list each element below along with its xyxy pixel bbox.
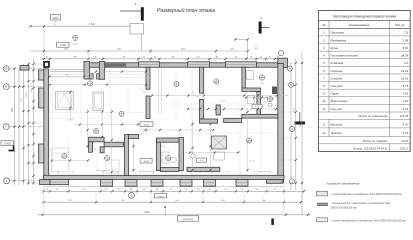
svg-text:- несущие внутр. перегородки и: - несущие внутр. перегородки из газоблок… bbox=[331, 202, 392, 205]
svg-text:90: 90 bbox=[143, 57, 145, 59]
svg-text:140: 140 bbox=[142, 189, 145, 191]
bold mark bottom bbox=[271, 218, 274, 225]
bath wall horizontal y167.5 bbox=[161, 168, 180, 172]
hall stub x100 bbox=[100, 147, 104, 153]
hall wall B y142 bbox=[104, 142, 123, 147]
svg-text:8,18: 8,18 bbox=[403, 131, 409, 135]
table row 4 Гостиная-столовая bbox=[319, 58, 411, 60]
svg-text:Условные обозначения: Условные обозначения bbox=[326, 182, 360, 186]
table subtotal row bbox=[319, 118, 411, 120]
closet wall horizontal y167 bbox=[187, 167, 220, 171]
witness lines top bbox=[88, 52, 90, 62]
left vertical dimension lines bbox=[14, 69, 16, 185]
svg-text:1,20: 1,20 bbox=[200, 160, 204, 162]
svg-text:60: 60 bbox=[46, 189, 48, 191]
svg-text:Кухня: Кухня bbox=[331, 46, 339, 50]
door arc living bbox=[140, 87, 146, 93]
room mark 6 bbox=[119, 111, 124, 116]
svg-text:1240: 1240 bbox=[117, 49, 123, 51]
svg-text:205: 205 bbox=[224, 189, 227, 191]
top wall windows bbox=[139, 62, 160, 67]
axis circle А bbox=[4, 178, 10, 184]
wc interior dim bbox=[244, 97, 276, 99]
interior duct lines x158 bbox=[158, 68, 160, 114]
svg-text:Подоконник см.: Подоконник см. bbox=[141, 171, 155, 173]
svg-text:Наименование: Наименование bbox=[349, 23, 370, 27]
svg-text:101: 101 bbox=[196, 57, 199, 59]
table row 8 Сан.узел bbox=[319, 88, 411, 90]
axis circle above right corner bbox=[278, 50, 283, 55]
svg-text:65: 65 bbox=[46, 57, 48, 59]
svg-text:Размерный план этажа: Размерный план этажа bbox=[157, 7, 215, 14]
svg-text:9,81: 9,81 bbox=[403, 46, 409, 50]
svg-text:В: В bbox=[5, 67, 7, 71]
section marker 1 top right bbox=[259, 22, 262, 34]
interior wall vertical x198 bbox=[200, 67, 204, 93]
right axis circles bbox=[287, 66, 292, 71]
interior wall vertical main x146 bbox=[146, 67, 150, 89]
fixtures living room rect 2 bbox=[93, 92, 103, 110]
interior wall horizontal y119 bbox=[200, 119, 218, 123]
svg-text:-0,050: -0,050 bbox=[143, 161, 150, 163]
tambour wall vertical right bbox=[99, 62, 104, 80]
svg-text:2,83: 2,83 bbox=[402, 99, 409, 103]
bottom dimension line 1 bbox=[44, 190, 305, 192]
svg-text:Спальня: Спальня bbox=[331, 76, 343, 80]
svg-text:120: 120 bbox=[240, 189, 243, 191]
top dimension line row B bbox=[31, 50, 248, 52]
wc block horizontal y114.5 bbox=[242, 114, 278, 118]
svg-text:Вентиляция: Вентиляция bbox=[331, 99, 349, 103]
room mark 4 elevation bbox=[259, 75, 264, 80]
right vertical dimension lines bbox=[290, 63, 292, 190]
svg-text:17,50: 17,50 bbox=[73, 44, 79, 46]
top exterior wall band bbox=[84, 63, 284, 67]
porch edge lines top-left bbox=[50, 69, 84, 71]
svg-text:170: 170 bbox=[169, 189, 172, 191]
table terrace subtotal bbox=[319, 143, 411, 145]
room mark 7 bbox=[104, 155, 109, 160]
svg-text:2400: 2400 bbox=[53, 17, 59, 20]
dining table block bbox=[212, 136, 227, 149]
dining interior dim bbox=[186, 108, 277, 110]
svg-text:6,75: 6,75 bbox=[403, 84, 409, 88]
svg-text:Раздевалка: Раздевалка bbox=[331, 38, 347, 42]
svg-text:h=2,70: h=2,70 bbox=[249, 161, 255, 163]
top-left empty frame box bbox=[130, 24, 144, 35]
elevation mark circle top bbox=[73, 35, 78, 40]
bath wall vertical x179 bbox=[179, 138, 184, 171]
wc block vertical x242 bbox=[242, 67, 245, 88]
bed furniture bottom-left bbox=[52, 148, 69, 172]
fixtures living room rect 1 bbox=[56, 92, 74, 110]
svg-text:125,55: 125,55 bbox=[400, 114, 409, 118]
svg-text:284: 284 bbox=[171, 57, 174, 59]
wc fixtures top right bbox=[247, 71, 254, 80]
svg-text:Кладовая: Кладовая bbox=[331, 61, 344, 65]
witness lines left bbox=[30, 63, 44, 65]
svg-text:288: 288 bbox=[73, 57, 76, 59]
witness lines bottom bbox=[43, 184, 45, 192]
svg-text:-0,450: -0,450 bbox=[4, 142, 11, 145]
top dimension jog bbox=[236, 38, 248, 40]
table row 7 Спальня bbox=[319, 81, 411, 83]
svg-text:2: 2 bbox=[322, 38, 325, 42]
table row 9 Сауна bbox=[319, 96, 411, 98]
door arc kitchen bbox=[193, 91, 199, 97]
bottom wall windows bbox=[50, 180, 69, 185]
svg-text:120: 120 bbox=[155, 189, 158, 191]
svg-text:12: 12 bbox=[322, 123, 326, 127]
svg-text:Итого: 125,55/13,57/14,11: Итого: 125,55/13,57/14,11 bbox=[353, 147, 388, 151]
bath fixtures center bbox=[162, 152, 169, 163]
table row 6 Спальня bbox=[319, 73, 411, 75]
svg-text:120: 120 bbox=[104, 189, 107, 191]
extra interior density lines bbox=[52, 70, 54, 174]
room mark 8 bbox=[246, 138, 251, 143]
svg-text:125: 125 bbox=[116, 189, 119, 191]
table row 1 Прихожая bbox=[319, 35, 411, 37]
svg-text:83: 83 bbox=[216, 57, 218, 59]
svg-text:19,81: 19,81 bbox=[401, 69, 409, 73]
svg-text:315: 315 bbox=[82, 189, 85, 191]
svg-text:368: 368 bbox=[122, 57, 125, 59]
table row 5 Кладовая bbox=[319, 65, 411, 67]
svg-text:Спальня: Спальня bbox=[331, 69, 343, 73]
witness lines right bbox=[284, 62, 297, 64]
table row 2 Раздевалка bbox=[319, 43, 411, 45]
left wall windows bbox=[39, 70, 44, 80]
svg-text:120: 120 bbox=[184, 189, 187, 191]
table row Крыльцо bbox=[319, 127, 411, 129]
top outer dimension line bbox=[31, 25, 142, 27]
svg-text:- стены перегородок из газобло: - стены перегородок из газоблоков, блок … bbox=[331, 220, 407, 223]
svg-text:Сауна: Сауна bbox=[331, 92, 340, 96]
room mark 9 bbox=[165, 155, 170, 160]
legend item 1 swatch bbox=[317, 191, 328, 196]
left bottom corner block bbox=[40, 180, 51, 185]
svg-text:Терраса: Терраса bbox=[331, 131, 343, 135]
hall wall A y137 bbox=[89, 137, 105, 142]
svg-text:130: 130 bbox=[93, 57, 96, 59]
interior dim light lines bbox=[152, 95, 288, 97]
table row Терраса bbox=[319, 136, 411, 138]
kitchen pier x216 bbox=[216, 105, 220, 115]
svg-text:139,12: 139,12 bbox=[400, 147, 409, 151]
svg-text:Плита элем. см.: Плита элем. см. bbox=[96, 170, 111, 172]
wc block horizontal y88 bbox=[242, 88, 261, 92]
svg-text:Крыльцо: Крыльцо bbox=[331, 123, 343, 127]
room mark 3 bbox=[214, 79, 219, 84]
bottom axis circle bbox=[129, 192, 135, 198]
table row 3 Кухня bbox=[319, 50, 411, 52]
right bottom corner block bbox=[267, 180, 283, 184]
label circle + box lower left of dining bbox=[191, 154, 195, 158]
table row 11 Сан.узел bbox=[319, 111, 411, 113]
legend item 2 swatch bbox=[318, 203, 328, 206]
porch steps stub left bbox=[20, 66, 29, 71]
svg-text:185: 185 bbox=[255, 189, 258, 191]
svg-text:13,57: 13,57 bbox=[401, 139, 408, 143]
svg-text:120: 120 bbox=[129, 189, 132, 191]
bottom dimension line 3 overall bbox=[38, 214, 311, 216]
room mark 1 bbox=[87, 81, 92, 86]
tambour wall bottom bbox=[90, 74, 94, 79]
bottom center boxed labels bbox=[155, 193, 167, 198]
section marker right side bbox=[299, 112, 301, 122]
svg-text:-2,320: -2,320 bbox=[59, 44, 66, 47]
interior box labels bbox=[140, 122, 153, 127]
svg-text:110: 110 bbox=[234, 57, 237, 59]
section marker 1 top left bbox=[120, 10, 142, 12]
svg-text:19,81: 19,81 bbox=[401, 76, 409, 80]
duct dark block right wall bbox=[272, 87, 277, 95]
svg-text:h=2,70: h=2,70 bbox=[219, 101, 225, 103]
svg-text:290: 290 bbox=[65, 74, 68, 76]
wc tiny label circle bbox=[268, 103, 272, 107]
svg-text:7,6: 7,6 bbox=[404, 31, 408, 35]
ground line under bottom windows bbox=[44, 186, 285, 188]
porch dim line bbox=[50, 76, 85, 78]
svg-text:h=2,70: h=2,70 bbox=[67, 120, 73, 122]
svg-text:7,26: 7,26 bbox=[403, 92, 409, 96]
svg-text:1318: 1318 bbox=[181, 49, 187, 51]
svg-text:4,9: 4,9 bbox=[404, 61, 408, 65]
top right corner pier bbox=[278, 58, 288, 67]
top-left leader box bbox=[51, 15, 61, 21]
door arc closet bbox=[139, 129, 145, 135]
bath wall horizontal y138 bbox=[157, 138, 180, 142]
axis circle В bbox=[3, 66, 9, 72]
svg-text:6,37: 6,37 bbox=[403, 123, 409, 127]
svg-text:4-38.2200: 4-38.2200 bbox=[183, 219, 194, 221]
section marker left side bbox=[9, 150, 15, 152]
room mark 2 bbox=[174, 81, 179, 86]
svg-text:120: 120 bbox=[207, 189, 210, 191]
door arc entry bbox=[87, 73, 93, 79]
svg-text:293: 293 bbox=[55, 189, 58, 191]
svg-text:10: 10 bbox=[322, 99, 326, 103]
hall wall piece y134.5 bbox=[129, 135, 139, 139]
door arc bedroom2 bbox=[90, 147, 96, 153]
svg-text:175: 175 bbox=[273, 189, 276, 191]
svg-text:1 520: 1 520 bbox=[89, 24, 95, 26]
left exterior wall band bbox=[44, 69, 49, 183]
svg-text:Сан.узел: Сан.узел bbox=[331, 107, 343, 111]
tick marks above bottom wall bbox=[57, 171, 59, 174]
boxed label -0.450 bbox=[1, 141, 14, 146]
interior guide lines bbox=[50, 73, 150, 75]
legend item 3 swatch bbox=[317, 218, 328, 222]
door arc wc right bbox=[245, 91, 250, 96]
svg-text:38,59: 38,59 bbox=[401, 54, 409, 58]
svg-text:2,98: 2,98 bbox=[402, 38, 409, 42]
svg-text:Пло, м²: Пло, м² bbox=[395, 23, 406, 27]
axis circle Г bbox=[3, 124, 9, 130]
svg-text:13: 13 bbox=[322, 131, 326, 135]
bottom exterior wall band bbox=[44, 175, 285, 179]
svg-text:Экспликация помещений первого: Экспликация помещений первого этажа bbox=[333, 15, 396, 19]
interior wall vertical x124.5 bbox=[125, 135, 129, 176]
boxed label -2.320 bbox=[57, 42, 70, 47]
bath wall vertical x156.5 bbox=[157, 142, 161, 170]
svg-text:Подоконник см.: Подоконник см. bbox=[257, 171, 271, 173]
hall stub x88.5 bbox=[89, 142, 93, 153]
wardrobe bottom middle bbox=[106, 160, 119, 173]
svg-text:Прихожая: Прихожая bbox=[331, 31, 345, 35]
tambour wall vertical left bbox=[84, 62, 90, 80]
svg-text:34: 34 bbox=[260, 57, 262, 59]
axis circle Б bbox=[3, 84, 9, 90]
svg-text:А: А bbox=[6, 179, 8, 183]
table row 10 Вентиляция bbox=[319, 103, 411, 105]
svg-text:Гостиная-столовая: Гостиная-столовая bbox=[331, 54, 359, 58]
right exterior wall band bbox=[278, 64, 284, 184]
corner column top-left bbox=[43, 61, 50, 68]
svg-text:Б: Б bbox=[5, 85, 7, 89]
svg-text:стяжка: стяжка bbox=[157, 196, 164, 198]
svg-text:Сан.узел: Сан.узел bbox=[331, 84, 343, 88]
room schedule table bbox=[319, 11, 411, 152]
svg-text:92: 92 bbox=[269, 57, 271, 59]
room mark 11 bbox=[93, 128, 98, 133]
svg-text:- стена наружная из газоблоков: - стена наружная из газоблоков, блок D50… bbox=[331, 193, 405, 196]
top dimension line row C bbox=[41, 58, 282, 60]
left axis dash lines bbox=[9, 68, 46, 70]
svg-text:9660: 9660 bbox=[144, 211, 150, 214]
svg-text:D500 625х250х200 мм: D500 625х250х200 мм bbox=[331, 207, 357, 210]
wc block divider x257 bbox=[257, 92, 261, 115]
svg-text:4,41: 4,41 bbox=[403, 107, 409, 111]
svg-text:Итого по террасе: Итого по террасе bbox=[363, 139, 388, 143]
top wall dark pier segment bbox=[105, 63, 127, 66]
room mark 10 bbox=[267, 96, 272, 101]
svg-text:60: 60 bbox=[154, 57, 156, 59]
door arc hall-bath bbox=[161, 142, 166, 147]
svg-text:проём: проём bbox=[144, 124, 150, 126]
svg-text:96: 96 bbox=[250, 57, 252, 59]
room mark 5 bbox=[62, 153, 67, 158]
svg-text:Итого по помещению: Итого по помещению bbox=[358, 114, 388, 118]
svg-text:11: 11 bbox=[322, 107, 325, 111]
bottom dimension line 2 bbox=[44, 201, 302, 203]
svg-text:115: 115 bbox=[196, 189, 199, 191]
